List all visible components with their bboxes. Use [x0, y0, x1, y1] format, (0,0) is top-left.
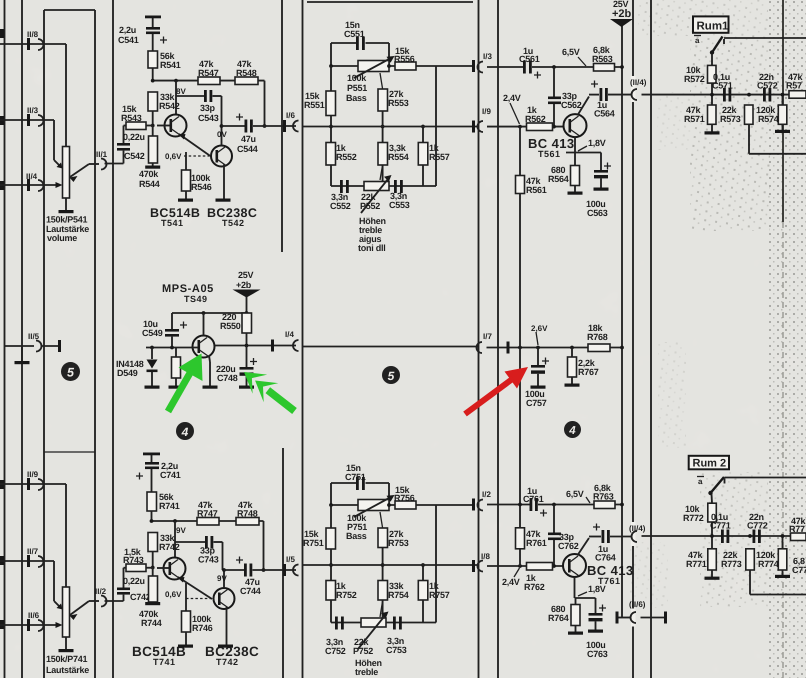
- svg-text:R550: R550: [220, 321, 241, 331]
- svg-text:R767: R767: [578, 367, 599, 377]
- svg-text:(II/4): (II/4): [629, 524, 646, 533]
- svg-text:toni dll: toni dll: [358, 243, 386, 253]
- svg-text:R741: R741: [159, 501, 180, 511]
- svg-text:R763: R763: [593, 492, 614, 502]
- svg-text:I/6: I/6: [286, 111, 295, 120]
- svg-text:2,6V: 2,6V: [531, 324, 548, 333]
- svg-text:R746: R746: [192, 623, 213, 633]
- svg-text:C541: C541: [118, 35, 139, 45]
- svg-text:R751: R751: [303, 538, 324, 548]
- svg-text:5: 5: [388, 369, 395, 383]
- svg-text:R571: R571: [684, 114, 705, 124]
- svg-text:R772: R772: [683, 513, 704, 523]
- svg-text:C743: C743: [198, 555, 219, 565]
- svg-text:C542: C542: [124, 151, 145, 161]
- svg-text:R744: R744: [141, 618, 162, 628]
- svg-text:C572: C572: [757, 81, 778, 91]
- svg-text:4: 4: [181, 425, 189, 439]
- svg-text:R561: R561: [526, 185, 547, 195]
- svg-text:volume: volume: [47, 233, 77, 243]
- svg-text:I/3: I/3: [483, 52, 492, 61]
- svg-text:C564: C564: [594, 109, 615, 119]
- svg-text:R743: R743: [123, 555, 144, 565]
- svg-text:Rum1: Rum1: [697, 21, 730, 33]
- svg-text:R574: R574: [758, 114, 779, 124]
- svg-text:C77: C77: [792, 565, 806, 575]
- svg-text:C751: C751: [345, 472, 366, 482]
- svg-text:0,6V: 0,6V: [165, 152, 182, 161]
- svg-text:2,4V: 2,4V: [503, 93, 521, 103]
- svg-text:C562: C562: [561, 100, 582, 110]
- svg-text:I/4: I/4: [285, 330, 294, 339]
- svg-text:(II/4): (II/4): [630, 78, 647, 87]
- svg-text:D549: D549: [117, 368, 138, 378]
- svg-text:R544: R544: [139, 179, 160, 189]
- svg-text:C772: C772: [747, 521, 768, 531]
- svg-text:R756: R756: [394, 493, 415, 503]
- svg-text:R554: R554: [388, 152, 409, 162]
- svg-text:P551: P551: [347, 83, 367, 93]
- svg-text:R57: R57: [786, 81, 802, 91]
- svg-text:T542: T542: [222, 218, 245, 228]
- svg-text:R773: R773: [721, 559, 742, 569]
- svg-text:C742: C742: [130, 592, 151, 602]
- svg-text:R553: R553: [388, 98, 409, 108]
- svg-text:R742: R742: [159, 542, 180, 552]
- svg-text:TS49: TS49: [184, 294, 208, 304]
- svg-text:II/7: II/7: [27, 547, 39, 556]
- svg-text:T742: T742: [216, 657, 239, 667]
- svg-text:R761: R761: [526, 538, 547, 548]
- svg-text:R551: R551: [304, 100, 325, 110]
- svg-text:C544: C544: [237, 144, 258, 154]
- svg-text:T741: T741: [153, 657, 176, 667]
- svg-text:9V: 9V: [176, 526, 186, 535]
- svg-text:C757: C757: [526, 398, 547, 408]
- svg-text:33p: 33p: [200, 103, 216, 113]
- svg-text:2,4V: 2,4V: [502, 577, 520, 587]
- svg-text:R771: R771: [686, 559, 707, 569]
- svg-text:C744: C744: [240, 586, 261, 596]
- svg-text:+2b: +2b: [236, 280, 252, 290]
- svg-text:(II/6): (II/6): [629, 600, 646, 609]
- svg-text:6,5V: 6,5V: [566, 489, 584, 499]
- svg-text:0V: 0V: [217, 130, 227, 139]
- svg-text:R563: R563: [592, 54, 613, 64]
- svg-text:+2b: +2b: [612, 8, 632, 20]
- svg-text:I/7: I/7: [483, 332, 492, 341]
- svg-text:R774: R774: [758, 559, 779, 569]
- svg-text:C553: C553: [389, 200, 410, 210]
- svg-text:C748: C748: [217, 373, 238, 383]
- svg-text:R762: R762: [524, 582, 545, 592]
- svg-text:25V: 25V: [238, 270, 254, 280]
- svg-text:II/9: II/9: [27, 470, 39, 479]
- svg-text:C563: C563: [587, 208, 608, 218]
- svg-text:Rum 2: Rum 2: [693, 458, 727, 470]
- svg-text:C771: C771: [710, 521, 731, 531]
- svg-text:R546: R546: [191, 182, 212, 192]
- svg-text:R747: R747: [197, 509, 218, 519]
- svg-text:R572: R572: [684, 74, 705, 84]
- svg-text:R564: R564: [548, 174, 569, 184]
- svg-text:C552: C552: [330, 201, 351, 211]
- svg-text:0,22u: 0,22u: [123, 132, 145, 142]
- svg-text:a: a: [698, 477, 703, 486]
- svg-text:treble: treble: [355, 667, 378, 677]
- svg-text:C551: C551: [344, 29, 365, 39]
- svg-text:47u: 47u: [241, 134, 256, 144]
- svg-text:P752: P752: [353, 646, 373, 656]
- svg-text:C764: C764: [595, 553, 616, 563]
- svg-text:R543: R543: [121, 113, 142, 123]
- svg-text:R753: R753: [388, 538, 409, 548]
- svg-text:Lautstärke: Lautstärke: [46, 665, 89, 675]
- svg-text:R77: R77: [789, 524, 805, 534]
- svg-text:R573: R573: [720, 114, 741, 124]
- svg-text:R548: R548: [236, 68, 257, 78]
- svg-text:R562: R562: [525, 114, 546, 124]
- svg-text:II/5: II/5: [28, 332, 40, 341]
- svg-text:I/2: I/2: [482, 490, 491, 499]
- svg-text:II/3: II/3: [27, 106, 39, 115]
- svg-text:T561: T561: [538, 149, 561, 159]
- svg-text:0,22u: 0,22u: [123, 576, 145, 586]
- svg-text:C741: C741: [160, 470, 181, 480]
- svg-text:R748: R748: [237, 509, 258, 519]
- svg-text:4: 4: [568, 425, 576, 437]
- svg-text:R754: R754: [388, 590, 409, 600]
- svg-text:II/8: II/8: [27, 30, 39, 39]
- svg-text:R552: R552: [336, 152, 357, 162]
- svg-text:II/1: II/1: [96, 150, 108, 159]
- svg-text:R768: R768: [587, 332, 608, 342]
- svg-text:9V: 9V: [217, 574, 227, 583]
- svg-text:C543: C543: [198, 113, 219, 123]
- svg-text:1,8V: 1,8V: [588, 584, 606, 594]
- svg-text:C549: C549: [142, 328, 163, 338]
- svg-text:Bass: Bass: [346, 531, 367, 541]
- svg-text:C752: C752: [325, 646, 346, 656]
- svg-text:T541: T541: [161, 218, 184, 228]
- svg-text:1,8V: 1,8V: [588, 138, 606, 148]
- svg-text:II/4: II/4: [26, 172, 38, 181]
- svg-text:II/2: II/2: [95, 587, 107, 596]
- svg-text:Bass: Bass: [346, 93, 367, 103]
- svg-text:R752: R752: [336, 590, 357, 600]
- svg-text:150k/P741: 150k/P741: [46, 654, 88, 664]
- svg-text:5: 5: [67, 366, 75, 380]
- svg-text:R757: R757: [429, 590, 450, 600]
- svg-text:a: a: [695, 36, 700, 45]
- svg-text:C762: C762: [558, 541, 579, 551]
- svg-text:C763: C763: [587, 649, 608, 659]
- svg-text:470k: 470k: [139, 169, 159, 179]
- svg-text:R547: R547: [198, 68, 219, 78]
- svg-text:C761: C761: [523, 494, 544, 504]
- svg-text:C753: C753: [386, 645, 407, 655]
- svg-text:100k: 100k: [347, 73, 367, 83]
- svg-text:6,5V: 6,5V: [562, 47, 580, 57]
- svg-text:8V: 8V: [176, 87, 186, 96]
- svg-text:C571: C571: [712, 81, 733, 91]
- svg-text:P552: P552: [360, 201, 380, 211]
- svg-text:I/5: I/5: [286, 555, 295, 564]
- svg-text:II/6: II/6: [28, 611, 40, 620]
- svg-text:R764: R764: [548, 613, 569, 623]
- svg-text:150k/P541: 150k/P541: [46, 215, 88, 225]
- svg-text:R541: R541: [160, 60, 181, 70]
- svg-text:I/9: I/9: [482, 107, 491, 116]
- svg-text:R556: R556: [394, 54, 415, 64]
- svg-text:C561: C561: [519, 54, 540, 64]
- svg-text:0,6V: 0,6V: [165, 590, 182, 599]
- svg-text:2,2u: 2,2u: [119, 25, 136, 35]
- svg-text:R557: R557: [429, 152, 450, 162]
